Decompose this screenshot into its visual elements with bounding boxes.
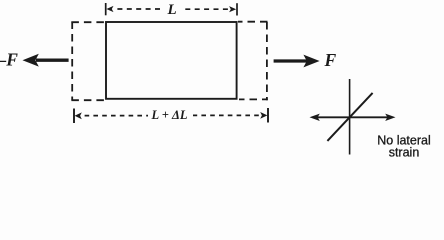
bottom dimension: right tick — [267, 108, 269, 123]
top dimension: dashed line left of label — [117, 8, 160, 10]
top dimension: right tick — [236, 3, 238, 15]
bottom dimension: dashed line right of label — [193, 114, 259, 116]
dashed outline: stretched bar, top edge (exposed left part) — [71, 21, 106, 23]
dashed outline: stretched bar, bottom edge (exposed left part) — [71, 99, 106, 101]
svg-text:–F: –F — [0, 49, 18, 69]
dashed outline: stretched bar, top edge (exposed right part) — [238, 21, 268, 23]
top dimension: left tick — [105, 3, 107, 15]
svg-text:L + ΔL: L + ΔL — [151, 108, 188, 122]
force arrow F shaft — [274, 59, 307, 62]
lateral axis: right arrowhead — [385, 114, 395, 121]
force arrow F head — [303, 55, 319, 68]
solid bar: original length rectangle — [106, 22, 237, 99]
svg-text:strain: strain — [389, 145, 420, 159]
force arrow -F head — [23, 54, 39, 67]
top dimension: right arrowhead — [229, 6, 236, 12]
lateral axis: left arrowhead — [310, 114, 320, 121]
top dimension: dashed line right of label — [181, 8, 228, 10]
svg-text:F: F — [324, 50, 337, 70]
bottom dimension: left tick — [73, 109, 75, 124]
bottom dimension: right arrowhead — [260, 112, 267, 119]
bottom dimension: dashed line left of label — [85, 115, 148, 117]
bottom dimension: left arrowhead — [75, 112, 82, 119]
lateral axis: horizontal double arrow line — [316, 116, 388, 118]
dashed outline: stretched bar, bottom edge (exposed right part) — [239, 98, 268, 100]
lateral axis: vertical line — [349, 79, 351, 155]
dashed outline: stretched bar, left edge — [71, 22, 73, 101]
dashed outline: stretched bar, right edge — [266, 22, 268, 100]
force arrow -F shaft — [36, 59, 69, 62]
svg-text:L: L — [167, 2, 177, 18]
top dimension: left arrowhead — [106, 6, 113, 12]
lateral axis: diagonal line — [327, 93, 372, 141]
